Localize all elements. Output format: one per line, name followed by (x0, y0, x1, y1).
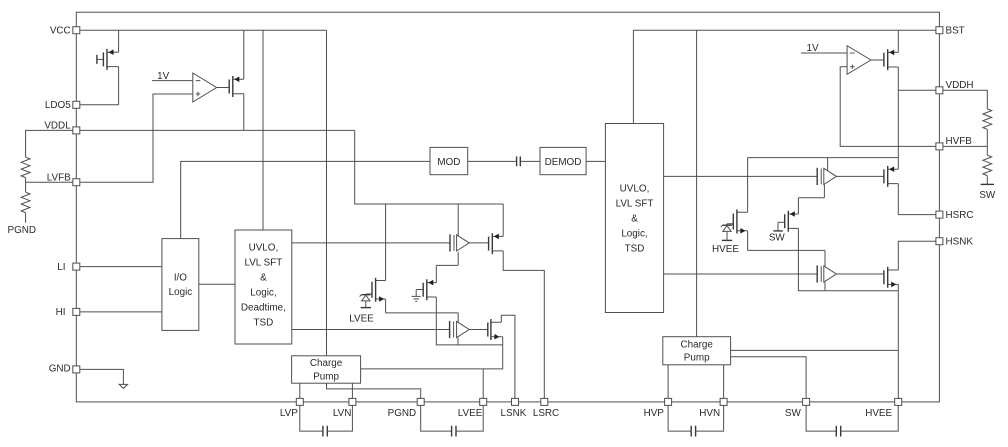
svg-text:HSNK: HSNK (946, 236, 974, 247)
svg-text:LSNK: LSNK (501, 408, 527, 419)
wire VDDL rail (80, 129, 355, 131)
svg-text:LVP: LVP (280, 408, 298, 419)
svg-text:HVEE: HVEE (712, 244, 739, 255)
pin HVN (699, 398, 727, 419)
resistor R3 (VDDH-HVFB external) (983, 109, 992, 129)
wire comparator U1 output to Q2 gate (217, 87, 230, 89)
svg-text:I/O: I/O (174, 273, 187, 284)
wire external capacitor to LVEE (456, 405, 483, 431)
svg-text:TSD: TSD (625, 243, 645, 254)
diode D2 (zener clamp to HVEE) (721, 223, 733, 240)
wire DEMOD to right UVLO block (586, 160, 605, 162)
wire low-side sink FET drain to LSNK pin (501, 315, 515, 398)
ground symbol at GND (119, 384, 127, 388)
wire 1V reference line (high side) (801, 52, 847, 54)
capacitor C4 (HVP-HVN) (691, 426, 695, 437)
op-amp U2 (high-side LDO error comparator) (847, 46, 871, 75)
ground (signal ground at Q4 gate) (412, 296, 421, 301)
pin HVEE (865, 398, 902, 419)
svg-text:&: & (260, 272, 267, 283)
wire low-side source FET output to LSRC pin (503, 251, 544, 399)
pin HI (56, 307, 80, 318)
pin LI (57, 262, 80, 273)
wire high-side sink FET source to HVEE pin (897, 284, 899, 398)
wire 1V reference line (low side) (152, 80, 193, 82)
wire R2 to PGND label (25, 213, 27, 223)
IC boundary box (76, 12, 939, 402)
driver U5 (upper high-side driver) (817, 158, 884, 185)
block right UVLO, LVL SFT & Logic, TSD (605, 124, 663, 313)
wire external capacitor to HVN (696, 405, 724, 431)
svg-text:SW: SW (979, 190, 996, 201)
wire BST to right Charge Pump feed (696, 30, 698, 337)
wire VDDL to low-side driver supply rail (355, 130, 504, 204)
svg-text:1V: 1V (806, 43, 818, 54)
pin HSNK (936, 236, 973, 247)
svg-text:HVEE: HVEE (865, 408, 892, 419)
diode D1 (zener clamp to LVEE) (360, 293, 372, 308)
pin VCC (50, 26, 80, 37)
driver U4 (lower low-side driver) (450, 313, 488, 345)
pin LVP (280, 398, 303, 419)
wire LVP to external capacitor (300, 405, 323, 431)
wire LVFB feedback to comparator + input (80, 94, 193, 182)
wire R1 to LVFB node (26, 178, 73, 183)
pin LDO5 (45, 100, 80, 111)
transistor Q9 (high-side FET, gate to SW) (778, 185, 824, 251)
svg-text:SW: SW (785, 408, 802, 419)
transistor Q10 (high-side source FET) (884, 166, 898, 187)
wire MOD to isolation capacitor (468, 160, 516, 162)
pin LSRC (533, 398, 559, 419)
svg-text:Logic,: Logic, (250, 287, 276, 298)
svg-text:TSD: TSD (254, 317, 274, 328)
svg-text:PGND: PGND (8, 225, 37, 236)
wire LVEE rail (low side) (386, 313, 503, 345)
wire VDDH to high-side driver supply rail (897, 67, 899, 169)
wire VDDH pin lead (898, 89, 936, 91)
wire I/O Logic to left UVLO block (199, 283, 235, 285)
svg-text:GND: GND (49, 364, 71, 375)
transistor Q7 (high-side LDO output FET) (884, 30, 898, 70)
wire VDDH to external divider (943, 90, 987, 109)
svg-text:Charge: Charge (681, 339, 714, 350)
driver U6 (lower high-side driver) (817, 250, 884, 290)
pin BST (936, 25, 965, 36)
wire PGND to external capacitor (421, 405, 452, 431)
wire VDDL to external divider (26, 130, 73, 157)
wire HI pin to I/O Logic (80, 311, 162, 313)
pin HVP (644, 398, 672, 419)
transistor Q1 (VCC-LDO5 pass FET) (97, 30, 119, 105)
pin LVFB (47, 173, 80, 186)
pin SW (785, 398, 810, 419)
transistor Q3 (low-side FET with zener to LVEE) (366, 204, 386, 313)
capacitor C1 (isolation barrier) (517, 157, 521, 167)
svg-text:UVLO,: UVLO, (249, 242, 279, 253)
resistor R2 (LVFB-PGND external) (21, 192, 30, 212)
op-amp U1 (low-side LDO error comparator) (193, 73, 217, 102)
wire right Charge Pump to HVEE net (731, 349, 899, 351)
wire VCC to left UVLO block top (262, 30, 264, 230)
wire R4 to SW terminal (986, 176, 988, 184)
wire HVFB node to R4 (986, 146, 988, 155)
wire right Charge Pump to SW pin (731, 357, 807, 399)
svg-text:HVFB: HVFB (946, 136, 973, 147)
svg-text:UVLO,: UVLO, (620, 183, 650, 194)
svg-text:HSRC: HSRC (946, 210, 974, 221)
wire HVP to external capacitor (668, 405, 691, 431)
wire BST rail (633, 29, 936, 31)
svg-text:&: & (631, 213, 638, 224)
svg-text:LVL SFT: LVL SFT (244, 257, 282, 268)
wire I/O Logic to MOD (181, 161, 430, 238)
wire comparator U2 output to Q7 gate (871, 59, 884, 61)
block DEMOD (540, 147, 586, 174)
block MOD (430, 147, 468, 174)
svg-text:LVEE: LVEE (458, 408, 483, 419)
pin LVN (333, 398, 356, 419)
wire right Charge Pump to HVN pin (723, 365, 725, 399)
transistor Q11 (high-side sink FET) (884, 267, 898, 288)
pin GND (49, 364, 80, 375)
svg-text:BST: BST (946, 25, 965, 36)
svg-text:LSRC: LSRC (533, 408, 559, 419)
block right Charge Pump (663, 337, 731, 365)
svg-text:LVEE: LVEE (349, 314, 374, 325)
resistor R4 (HVFB-SW external) (983, 155, 992, 175)
svg-text:Deadtime,: Deadtime, (241, 302, 286, 313)
transistor Q6 (low-side sink FET) (488, 319, 503, 340)
block I/O Logic (162, 239, 199, 331)
wire high-side sink FET drain to HSNK pin (898, 241, 936, 270)
pin HVFB (936, 136, 972, 150)
svg-text:LVFB: LVFB (47, 173, 71, 184)
wire external capacitor to HVEE (841, 405, 899, 431)
capacitor C5 (SW-HVEE) (836, 426, 840, 437)
pin VDDL (44, 121, 79, 134)
wire isolation capacitor to DEMOD (521, 160, 540, 162)
pin VDDH (936, 80, 974, 94)
capacitor C2 (LVP-LVN) (323, 426, 327, 437)
wire left UVLO to lower low-side driver input (292, 329, 450, 331)
svg-text:SW: SW (769, 232, 786, 243)
svg-text:Charge: Charge (310, 358, 343, 369)
wire HVEE rail (high side) (748, 250, 899, 290)
block left Charge Pump (292, 356, 361, 383)
wire right UVLO to upper high-side driver input (664, 175, 818, 177)
wire LVFB node to R2 (25, 182, 27, 192)
svg-text:VCC: VCC (50, 26, 71, 37)
block left UVLO, LVL SFT & Logic, Deadtime, TSD (235, 230, 292, 344)
svg-text:HVP: HVP (644, 408, 665, 419)
svg-text:Logic,: Logic, (621, 228, 647, 239)
svg-text:MOD: MOD (437, 157, 460, 168)
wire left Charge Pump to PGND pin (327, 383, 421, 398)
svg-text:DEMOD: DEMOD (545, 157, 582, 168)
wire left Charge Pump to LVN pin (351, 383, 353, 398)
wire right UVLO to lower high-side driver input (664, 273, 818, 275)
svg-text:VDDL: VDDL (44, 121, 71, 132)
transistor Q8 (high-side FET with zener to HVEE) (727, 158, 748, 251)
node SW terminal bar (Q9 gate) (773, 230, 782, 232)
transistor Q2 (low-side LDO output FET) (229, 30, 244, 130)
transistor Q4 (low-side FET, gate to signal ground) (416, 252, 458, 313)
wire R3 to HVFB node (943, 129, 987, 146)
wire high-side source FET output to HSRC pin (898, 184, 936, 215)
pin LSNK (501, 398, 527, 419)
resistor R1 (VDDL-LVFB external) (21, 157, 30, 177)
svg-text:Pump: Pump (684, 353, 710, 364)
wire LI pin to I/O Logic (80, 266, 162, 268)
wire VCC rail (VCC pin to charge-pump feed corner) (80, 29, 327, 31)
svg-text:LI: LI (57, 262, 65, 273)
wire left Charge Pump to LVP pin (299, 383, 301, 398)
svg-text:LVL SFT: LVL SFT (616, 198, 654, 209)
capacitor C3 (PGND-LVEE) (452, 426, 456, 437)
pin HSRC (936, 210, 974, 221)
wire right Charge Pump to HVP pin (667, 365, 669, 399)
wire external capacitor to LVN (327, 405, 352, 431)
wire HVFB feedback to comparator + input (840, 67, 936, 147)
svg-text:VDDH: VDDH (946, 80, 974, 91)
svg-text:HI: HI (56, 307, 66, 318)
svg-text:Logic: Logic (169, 287, 193, 298)
wire GND pin to ground symbol (80, 369, 124, 384)
svg-text:LVN: LVN (333, 408, 351, 419)
pin LVEE (458, 398, 487, 419)
transistor Q5 (low-side source FET) (489, 204, 504, 254)
svg-text:HVN: HVN (699, 408, 720, 419)
svg-text:Pump: Pump (313, 372, 339, 383)
wire VCC to left Charge Pump feed (326, 30, 328, 356)
pin PGND (388, 398, 425, 419)
wire LDO5 pin lead (80, 104, 119, 106)
svg-text:1V: 1V (157, 71, 169, 82)
svg-text:LDO5: LDO5 (45, 100, 71, 111)
svg-text:PGND: PGND (388, 408, 417, 419)
wire BST to right UVLO block top (632, 30, 634, 123)
wire high-side driver supply rail (748, 157, 899, 159)
driver U3 (upper low-side driver) (450, 204, 489, 252)
wire left UVLO to upper low-side driver input (292, 242, 450, 244)
wire low-side sink FET source to LVEE pin (361, 337, 503, 399)
wire SW to external capacitor (806, 405, 836, 431)
node SW terminal bar (external divider) (981, 183, 994, 185)
